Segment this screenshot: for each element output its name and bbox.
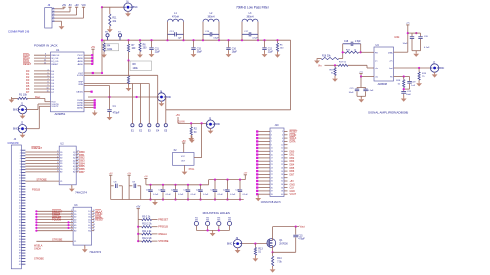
svg-text:3: 3: [71, 213, 72, 215]
svg-text:BNC: BNC: [133, 6, 138, 9]
inductor L1 470nH: [167, 22, 169, 40]
svg-text:30: 30: [19, 230, 21, 232]
svg-text:IOUTB: IOUTB: [77, 75, 84, 77]
node LPF junction: [202, 39, 204, 41]
wire OUT to J7: [394, 67, 431, 69]
pin CONN PD: [21, 180, 25, 182]
capacitor C22 10uF: [401, 91, 406, 93]
wire decoupling bottom: [357, 95, 366, 97]
svg-text:6: 6: [20, 164, 21, 166]
svg-text:29: 29: [19, 228, 21, 230]
svg-text:-5V: -5V: [68, 4, 72, 7]
svg-text:R11 2.2k: R11 2.2k: [142, 231, 152, 233]
pin PVCC/AVDD: [84, 54, 91, 56]
svg-text:2N7000: 2N7000: [279, 242, 288, 245]
power +5V bypass left B: [128, 174, 131, 176]
ground fb network: [403, 94, 405, 98]
resistor R16 20k: [321, 57, 339, 59]
svg-text:3.6pF: 3.6pF: [213, 38, 219, 40]
pin CONN PD: [21, 216, 25, 218]
pin CONN PD: [21, 158, 25, 160]
svg-text:VIN: VIN: [82, 4, 86, 7]
wire mounting hole stem: [195, 225, 197, 230]
ground J10: [257, 194, 259, 197]
svg-text:U1: U1: [56, 48, 60, 52]
svg-text:C15: C15: [298, 235, 303, 237]
connector J4 CONN PD body: [11, 145, 21, 269]
svg-text:100k: 100k: [133, 67, 139, 70]
svg-text:39pF: 39pF: [197, 52, 203, 54]
svg-text:34: 34: [281, 184, 283, 186]
svg-text:11: 11: [19, 178, 21, 180]
pin GND: [84, 99, 94, 101]
svg-text:1uF: 1uF: [411, 85, 415, 87]
pin J10 left 15: [258, 177, 270, 179]
svg-text:7: 7: [20, 166, 21, 168]
pin CONN PD: [21, 185, 25, 187]
svg-text:FQ_UD: FQ_UD: [52, 61, 59, 63]
pin J10 left 7: [258, 150, 270, 152]
svg-text:8: 8: [20, 169, 21, 171]
pin CONN PD: [21, 194, 25, 196]
capacitor C19f 1uF: [409, 77, 411, 81]
svg-text:BNC: BNC: [227, 243, 232, 246]
wire U2 out 7: [76, 171, 78, 173]
pin PVCC/AVDD: [84, 57, 91, 59]
svg-text:8: 8: [48, 81, 49, 83]
wire U3 out 0: [92, 210, 94, 212]
resistor R10 2.2k: [138, 226, 142, 228]
wire D7 to U1: [34, 91, 51, 93]
ground C12: [264, 52, 266, 54]
svg-text:38: 38: [19, 253, 21, 255]
svg-text:10uF: 10uF: [403, 43, 409, 45]
svg-text:31: 31: [271, 181, 273, 183]
svg-text:32: 32: [19, 236, 21, 238]
wire fb bottom: [403, 88, 405, 92]
pin CONN PD: [21, 171, 25, 173]
svg-text:STROBE: STROBE: [34, 258, 44, 261]
svg-text:100k: 100k: [394, 36, 400, 39]
wire DATA to U1: [34, 60, 51, 62]
svg-text:R16 20k: R16 20k: [322, 56, 331, 58]
svg-text:0.1uF: 0.1uF: [218, 194, 224, 196]
pin CONN PD: [21, 199, 25, 201]
inductor L3 390nH: [241, 22, 243, 40]
wire U3 out 7: [92, 230, 94, 232]
svg-text:DATA: DATA: [290, 140, 296, 143]
svg-text:27: 27: [271, 174, 273, 176]
svg-text:3: 3: [20, 155, 21, 157]
svg-text:15: 15: [271, 154, 273, 156]
inductor L2 390nH: [202, 22, 204, 40]
svg-text:470pF: 470pF: [298, 239, 305, 241]
ground U4 decoupling: [360, 96, 362, 98]
pin CONN PD: [21, 249, 25, 251]
svg-text:7: 7: [71, 224, 72, 226]
svg-text:5: 5: [20, 161, 21, 163]
wire C8 drop: [121, 186, 123, 200]
svg-text:18: 18: [19, 197, 21, 199]
svg-text:24: 24: [19, 214, 21, 216]
pin J10 left 11: [258, 164, 270, 166]
svg-text:25: 25: [19, 217, 21, 219]
power +9V: [75, 6, 78, 8]
node LPF junction: [276, 39, 278, 41]
wire PVCC rail: [92, 49, 94, 64]
svg-text:Vin: Vin: [318, 64, 322, 67]
svg-text:32: 32: [281, 181, 283, 183]
wire U3 clock: [36, 240, 73, 242]
svg-text:3: 3: [271, 135, 272, 137]
wire D1 to U1: [34, 73, 51, 75]
svg-text:470pF: 470pF: [113, 111, 120, 114]
op-amp U1 AD9851 DDS chip body: [51, 52, 85, 112]
wire C9 drop: [140, 186, 142, 200]
wire bypass left B: [128, 175, 130, 199]
pin CONN PD: [21, 152, 25, 154]
svg-text:2: 2: [57, 151, 58, 153]
wire R9 out: [152, 219, 158, 221]
svg-text:3: 3: [53, 14, 54, 16]
svg-text:28: 28: [281, 174, 283, 176]
svg-text:1: 1: [271, 131, 272, 133]
pin J10 right 9: [284, 157, 288, 159]
node source junction: [272, 251, 274, 253]
pin CONN PD: [21, 213, 25, 215]
svg-text:5: 5: [57, 159, 58, 161]
svg-text:0.1uF: 0.1uF: [178, 194, 184, 196]
svg-text:21: 21: [271, 164, 273, 166]
svg-text:0.1uF: 0.1uF: [191, 194, 197, 196]
ground R6: [139, 52, 141, 54]
svg-text:20: 20: [281, 161, 283, 163]
pin J10 right 7: [284, 150, 288, 152]
svg-text:390nH: 390nH: [207, 15, 214, 18]
resistor R4 100k shunt: [103, 40, 105, 43]
svg-text:11: 11: [271, 148, 273, 150]
pin VINP wire: [84, 83, 149, 85]
svg-text:39: 39: [19, 255, 21, 257]
pin CONN PD: [21, 188, 25, 190]
ground J2: [22, 132, 24, 135]
wire D0 to U1: [34, 70, 51, 72]
capacitor bypass C27 0.1uF: [226, 179, 228, 181]
pin CONN PD: [21, 169, 25, 171]
svg-text:9: 9: [271, 144, 272, 146]
connector J10 body: [270, 128, 284, 197]
node U3 input junction: [67, 221, 69, 223]
wire WCLK to U1: [34, 57, 51, 59]
svg-text:13: 13: [19, 183, 21, 185]
wire CONN PD to U2 pin 6: [25, 162, 59, 164]
wire U3 input 6: [36, 227, 73, 229]
svg-text:AGND: AGND: [77, 106, 83, 109]
svg-text:18: 18: [281, 158, 283, 160]
wire Vs to U4: [360, 74, 362, 77]
svg-text:8: 8: [282, 141, 283, 143]
node test point E5: [164, 124, 167, 127]
pin CONN PD: [21, 221, 25, 223]
svg-text:22: 22: [281, 164, 283, 166]
svg-text:+5V: +5V: [182, 141, 187, 143]
wire ladder rail: [137, 209, 139, 241]
svg-text:DACBL: DACBL: [76, 91, 84, 94]
svg-text:0.1uF: 0.1uF: [166, 194, 172, 196]
resistor R13 51: [254, 244, 256, 248]
ground U2: [71, 185, 73, 188]
wire CONN PD to U2 pin 7: [25, 165, 59, 167]
wire R12 out: [152, 240, 158, 242]
connector J2 BNC: [18, 125, 26, 133]
svg-text:AVDD: AVDD: [78, 60, 84, 63]
wire mounting holes rail: [196, 229, 229, 231]
capacitor C15 39pF shunt: [193, 40, 195, 47]
node LPF junction: [192, 39, 194, 41]
capacitor C18 1.5pF feedback: [343, 43, 351, 45]
wire U3 input 2: [36, 216, 73, 218]
svg-text:25: 25: [271, 171, 273, 173]
svg-text:BNC: BNC: [166, 96, 171, 99]
wire bypass rail step: [208, 180, 210, 185]
svg-text:+5V: +5V: [243, 173, 247, 175]
svg-text:BNC: BNC: [13, 128, 18, 131]
node R7-R8 junction: [127, 59, 129, 61]
svg-text:26: 26: [281, 171, 283, 173]
svg-text:R10 2.2k: R10 2.2k: [142, 224, 152, 226]
wire +5V to DIS pin: [407, 25, 409, 52]
ground mounting holes: [212, 230, 214, 232]
svg-text:2: 2: [20, 153, 21, 155]
svg-text:38: 38: [281, 191, 283, 193]
wire U3 input 5: [36, 224, 73, 226]
svg-text:AD8008: AD8008: [378, 82, 388, 86]
oscillator X2 body: [173, 153, 195, 166]
power +5V ladder: [137, 208, 140, 210]
node E loop E7: [118, 34, 121, 37]
pin CONN PD: [21, 202, 25, 204]
node test point E1: [131, 124, 134, 127]
pin CONN PD: [21, 230, 25, 232]
pin J10 left 18: [258, 187, 270, 189]
svg-text:VCC: VCC: [181, 156, 186, 158]
svg-text:10: 10: [281, 144, 283, 146]
svg-text:WRESET: WRESET: [31, 147, 42, 150]
pin GND: [84, 102, 94, 104]
wire R17 to +IN: [348, 64, 367, 66]
wire Q1 drain up: [272, 227, 274, 241]
svg-text:0.1uF: 0.1uF: [203, 194, 209, 196]
wire Q1 source: [272, 246, 274, 253]
ground J5: [210, 128, 212, 129]
pin J10 left 13: [258, 170, 270, 172]
pin CONN PD: [21, 191, 25, 193]
node CLKIN junctions: [190, 122, 192, 124]
capacitor C1 470pF: [107, 109, 111, 111]
svg-text:19: 19: [271, 161, 273, 163]
wire loop right riser: [290, 40, 292, 110]
svg-text:BNC: BNC: [215, 123, 220, 126]
svg-text:9: 9: [20, 172, 21, 174]
svg-text:PPSELB: PPSELB: [158, 226, 168, 229]
wire feedback left: [342, 44, 344, 59]
node LPF junction: [101, 39, 103, 41]
node LPF junction: [139, 39, 141, 41]
svg-text:16: 16: [281, 154, 283, 156]
svg-text:74HC574: 74HC574: [89, 250, 101, 254]
wire CONN PD to U2 pin 9: [25, 171, 59, 173]
svg-text:+9V: +9V: [74, 4, 79, 7]
capacitor C13 1pF parallel: [168, 33, 175, 35]
svg-text:7: 7: [48, 78, 49, 80]
pin CONN PD: [21, 177, 25, 179]
pin CONN PD: [21, 183, 25, 185]
pin CONN PD: [21, 208, 25, 210]
pin J10 left 6: [258, 147, 270, 149]
wire test point stem: [165, 110, 167, 124]
wire Vin: [325, 64, 339, 66]
svg-text:Vout: Vout: [300, 225, 305, 229]
wire mounting hole stem: [218, 225, 220, 230]
ground floating near X2: [191, 138, 193, 140]
wire loop bottom run: [166, 109, 291, 111]
wire test point stem: [148, 84, 150, 124]
svg-text:9: 9: [45, 57, 46, 59]
power +5V: [62, 6, 65, 8]
node ladder junction: [137, 240, 139, 242]
svg-text:VINN: VINN: [78, 84, 83, 86]
svg-text:XTAL: XTAL: [189, 168, 195, 171]
ground J9: [237, 248, 239, 249]
svg-text:9: 9: [57, 171, 58, 173]
resistor R14 7.5k: [272, 252, 274, 256]
capacitor C21 10uF: [357, 87, 366, 89]
svg-text:12: 12: [281, 148, 283, 150]
svg-text:10: 10: [19, 175, 21, 177]
pin J10 left 16: [258, 180, 270, 182]
pin CONN PD: [21, 166, 25, 168]
svg-text:C12: C12: [268, 48, 273, 50]
resistor R18 51: [403, 77, 405, 80]
svg-text:17: 17: [19, 194, 21, 196]
pin J10 right 4: [284, 140, 288, 142]
connector J7 BNC: [430, 64, 438, 72]
svg-text:AVDD: AVDD: [78, 57, 84, 60]
resistor R7 100 shunt chain: [128, 40, 130, 44]
svg-text:36: 36: [281, 187, 283, 189]
svg-text:R1 10k: R1 10k: [19, 94, 28, 97]
ground J8: [161, 101, 163, 102]
wire J9 to Q1 gate: [242, 243, 267, 245]
svg-text:39: 39: [271, 194, 273, 196]
pin GND: [84, 104, 94, 106]
power +5V bypass rail end: [244, 174, 247, 176]
svg-text:26: 26: [19, 219, 21, 221]
svg-text:5: 5: [48, 72, 49, 74]
pin VINN wire: [84, 85, 110, 87]
svg-text:37: 37: [19, 250, 21, 252]
capacitor C16 470pF: [295, 227, 297, 235]
pin J10 right 13: [284, 170, 288, 172]
svg-text:12: 12: [19, 180, 21, 182]
resistor R19 75 shunt: [418, 68, 420, 72]
pin J10 right 2: [284, 134, 288, 136]
wire source to C16: [273, 251, 296, 253]
svg-text:13: 13: [271, 151, 273, 153]
wire U3 input 1: [36, 213, 73, 215]
svg-text:22: 22: [44, 62, 46, 64]
svg-text:40: 40: [281, 194, 283, 196]
node LPF junction: [182, 39, 184, 41]
node LPF junction: [166, 39, 168, 41]
wire U2 out 2: [76, 157, 78, 159]
capacitor bypass C11 0.1uF: [149, 184, 151, 186]
svg-text:4: 4: [57, 156, 58, 158]
wire test point stem: [157, 75, 159, 123]
pin CONN PD: [21, 252, 25, 254]
pin CONN PD: [21, 255, 25, 257]
svg-text:17: 17: [271, 158, 273, 160]
wire Vs decoupling drop: [360, 77, 362, 88]
svg-text:BNC: BNC: [13, 109, 18, 112]
node LPF junction: [127, 39, 129, 41]
svg-text:4.7pF: 4.7pF: [252, 38, 258, 40]
svg-text:0.1uF: 0.1uF: [230, 194, 236, 196]
svg-text:22pF: 22pF: [268, 52, 274, 54]
node U3 input junction: [67, 224, 69, 226]
svg-text:-Vs: -Vs: [375, 77, 378, 79]
node LPF junction: [257, 39, 259, 41]
svg-text:40: 40: [19, 258, 21, 260]
svg-text:0.1uF: 0.1uF: [243, 194, 249, 196]
resistor R11 2.2k: [138, 233, 142, 235]
power +5V X2: [182, 142, 185, 144]
pin J10 left 19: [258, 190, 270, 192]
resistor R2 50 shunt: [190, 123, 192, 127]
ground R19: [418, 80, 420, 82]
wire J3 pin4 to VIN: [55, 17, 84, 19]
wire U3 out 3: [92, 219, 94, 221]
svg-text:+5V: +5V: [127, 173, 131, 175]
capacitor C14 3.6pF parallel: [203, 33, 210, 35]
wire U3 out 2: [92, 216, 94, 218]
svg-text:0.1uF: 0.1uF: [424, 47, 430, 49]
wire U2 out 4: [76, 162, 78, 164]
connector J5 BNC: [206, 120, 214, 128]
svg-text:GNDA: GNDA: [34, 248, 41, 251]
wire D3 to U1: [34, 79, 51, 81]
power +5V bypass rail start: [144, 177, 147, 179]
pin J10 right 18: [284, 187, 288, 189]
svg-text:22: 22: [19, 208, 21, 210]
pin J10 left 17: [258, 183, 270, 185]
pin PVCC/AVDD: [84, 60, 91, 62]
wire R10 out: [152, 226, 158, 228]
wire U2 out 6: [76, 168, 78, 170]
svg-text:AD9851: AD9851: [55, 112, 66, 116]
pin J10 right 6: [284, 147, 288, 149]
svg-text:6: 6: [282, 138, 283, 140]
node R15 junction: [334, 64, 336, 66]
wire mounting hole stem: [229, 225, 231, 230]
svg-text:27: 27: [19, 222, 21, 224]
wire J3 pin1 to +5V: [55, 8, 65, 10]
pin CONN PD: [21, 258, 25, 260]
pin J10 left 12: [258, 167, 270, 169]
node Vout junction: [295, 226, 297, 228]
svg-text:C18: C18: [344, 41, 349, 43]
svg-text:STROBE: STROBE: [158, 240, 169, 243]
